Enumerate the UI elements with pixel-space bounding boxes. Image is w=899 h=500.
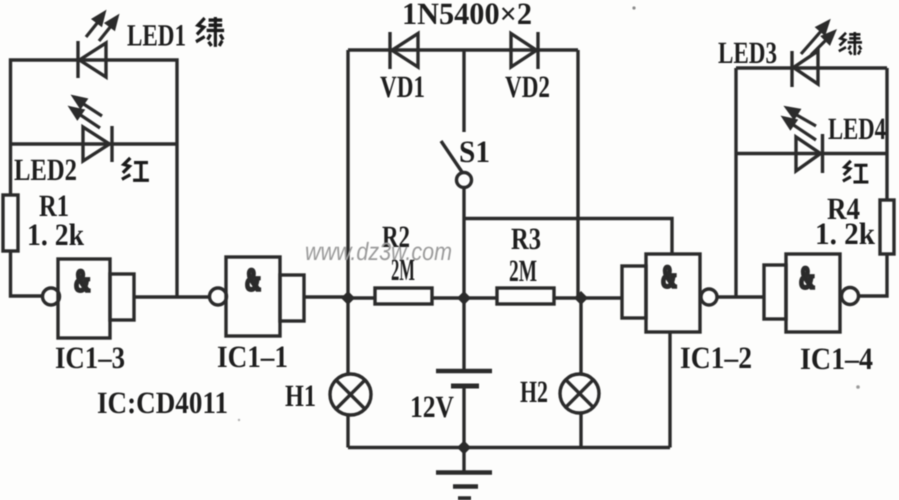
wire: H1 to bottom rail xyxy=(346,414,349,448)
label green glyph for LED3 xyxy=(839,32,862,55)
wire: R1 to IC1-3 input xyxy=(11,251,43,296)
svg-text:LED2: LED2 xyxy=(14,152,77,187)
speck xyxy=(856,385,860,389)
LED1 (green) diode xyxy=(78,41,106,78)
ground xyxy=(436,448,492,499)
battery 12V (power source) xyxy=(436,298,492,448)
svg-text:LED3: LED3 xyxy=(718,35,777,70)
lamp H1 xyxy=(330,374,371,415)
label red glyph for LED4 xyxy=(843,161,869,182)
label green glyph for LED1 xyxy=(196,17,224,47)
wire: IC1-4 output to R4 xyxy=(859,254,887,296)
switch S1 xyxy=(441,50,472,298)
wire: top diode rail xyxy=(348,48,578,51)
wire: LED4 row xyxy=(736,152,887,155)
speck xyxy=(238,419,240,421)
LED1 emission arrows xyxy=(86,13,117,41)
svg-text:IC1–2: IC1–2 xyxy=(680,340,752,375)
wire: IC1-2 bottom drop xyxy=(668,332,671,448)
svg-text:H1: H1 xyxy=(285,378,316,413)
wire: IC1-1 output to node A xyxy=(304,295,348,298)
wire: H2 to bottom rail xyxy=(579,412,582,448)
wire: right block top rail (LED3 row) xyxy=(736,66,887,69)
svg-text:1. 2k: 1. 2k xyxy=(815,216,876,251)
svg-text:H2: H2 xyxy=(520,374,548,409)
node: junction IC1-1 output xyxy=(341,291,355,305)
LED2 emission arrows xyxy=(71,97,102,128)
svg-text:IC:CD4011: IC:CD4011 xyxy=(97,385,228,420)
svg-text:1. 2k: 1. 2k xyxy=(27,217,85,252)
lamp H2 xyxy=(560,374,599,413)
svg-text:IC1–4: IC1–4 xyxy=(800,341,873,376)
svg-text:12V: 12V xyxy=(410,389,455,424)
wire: left block top rail (LED1 row) xyxy=(11,60,178,297)
wire: H2 drop xyxy=(579,298,582,374)
svg-text:IC1–3: IC1–3 xyxy=(55,340,125,375)
node: junction ground xyxy=(457,441,471,455)
svg-text:VD1: VD1 xyxy=(380,69,425,104)
svg-text:S1: S1 xyxy=(459,134,490,169)
wire: middle block right vertical xyxy=(576,50,579,298)
wire: oscillator row xyxy=(348,296,622,299)
resistor R4 xyxy=(880,200,894,254)
svg-text:2M: 2M xyxy=(509,253,537,288)
NAND gate IC1-3 xyxy=(43,259,135,338)
wire: H1 drop xyxy=(346,298,349,376)
LED4 (red) diode xyxy=(796,134,823,173)
svg-text:1N5400×2: 1N5400×2 xyxy=(402,0,532,31)
label red glyph for LED2 xyxy=(122,158,149,180)
svg-text:IC1–1: IC1–1 xyxy=(217,339,288,374)
wire: IC1-2 output xyxy=(717,295,764,298)
svg-text:LED4: LED4 xyxy=(828,111,886,146)
wire: right block right vertical xyxy=(885,68,888,200)
wire: S1 branch to IC1-2 top xyxy=(464,219,672,255)
LED3 (green) diode xyxy=(792,51,818,87)
svg-text:LED1: LED1 xyxy=(127,18,186,53)
wire: bottom rail xyxy=(348,446,670,449)
svg-text:&: & xyxy=(661,259,677,294)
resistor R1 xyxy=(3,195,18,251)
resistor R2 xyxy=(375,288,432,304)
svg-text:&: & xyxy=(799,260,815,295)
svg-text:R3: R3 xyxy=(511,221,541,256)
LED2 (red) diode xyxy=(83,126,112,162)
resistor R3 xyxy=(497,288,554,304)
NAND gate IC1-4 xyxy=(764,254,859,332)
wire: right block left vertical xyxy=(734,68,737,297)
speck xyxy=(632,6,635,9)
wire: middle block left vertical xyxy=(346,50,349,298)
svg-text:&: & xyxy=(74,263,91,298)
wire: LED2 row xyxy=(11,142,178,145)
diode VD2 xyxy=(511,32,538,69)
NAND gate IC1-2 xyxy=(622,254,717,332)
svg-text:VD2: VD2 xyxy=(505,69,550,104)
LED3 emission arrows xyxy=(801,22,834,55)
LED4 emission arrows xyxy=(784,108,816,140)
NAND gate IC1-1 xyxy=(210,257,305,336)
svg-text:&: & xyxy=(245,262,261,297)
wire: IC1-3 output to IC1-1 input xyxy=(134,295,210,298)
diode VD1 xyxy=(390,32,418,69)
node: junction battery top xyxy=(457,291,471,305)
node: junction R3 right xyxy=(574,291,588,305)
svg-text:www.dz3w.com: www.dz3w.com xyxy=(305,238,452,266)
